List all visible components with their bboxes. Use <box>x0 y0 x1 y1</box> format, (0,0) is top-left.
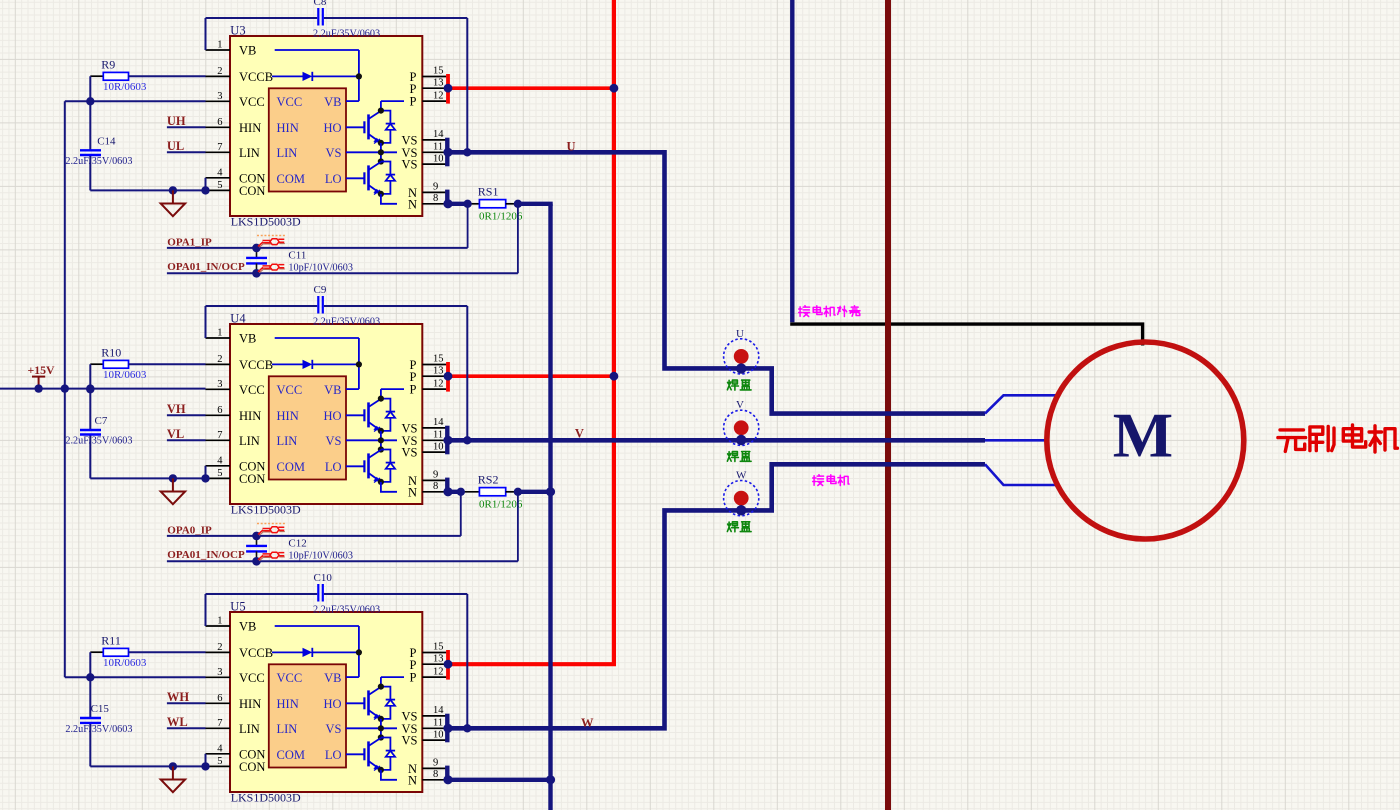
svg-text:8: 8 <box>433 769 438 780</box>
VS bar U4 <box>445 426 449 455</box>
wire OPA_IN tap U3 <box>517 204 519 273</box>
svg-text:N: N <box>408 773 417 787</box>
diode D-low U4 <box>378 450 395 486</box>
svg-text:N: N <box>408 197 417 211</box>
transistor Q-low U5 (IGBT) <box>346 738 381 771</box>
svg-text:7: 7 <box>217 142 222 153</box>
svg-text:U4: U4 <box>230 312 246 326</box>
internal VS rail U3 <box>346 143 397 165</box>
svg-text:HIN: HIN <box>239 409 261 423</box>
svg-text:7: 7 <box>217 430 222 441</box>
no-ERC marker OPA0_IP <box>257 524 286 536</box>
node OPA tap U4 <box>457 488 465 496</box>
label 焊盘 U <box>727 380 751 390</box>
N bar U5 <box>445 766 449 783</box>
inner block U4 <box>269 376 346 479</box>
svg-text:VB: VB <box>324 671 341 685</box>
N bar U3 <box>445 190 449 207</box>
wire phase W (thick) <box>448 464 985 728</box>
svg-text:2: 2 <box>217 354 222 365</box>
node gnd U3 <box>169 186 177 194</box>
svg-text:WL: WL <box>167 715 188 729</box>
svg-text:1: 1 <box>217 616 222 627</box>
svg-text:VCC: VCC <box>239 383 265 397</box>
wire VB rail U5 <box>206 594 468 728</box>
svg-text:VCCB: VCCB <box>239 70 273 84</box>
svg-text:HIN: HIN <box>277 409 299 423</box>
svg-text:CON: CON <box>239 760 265 774</box>
svg-text:VB: VB <box>324 95 341 109</box>
svg-text:LIN: LIN <box>239 434 260 448</box>
VS bar U3 <box>445 138 449 167</box>
svg-text:VB: VB <box>239 620 256 634</box>
svg-text:P: P <box>410 383 417 397</box>
capacitor C12 <box>246 536 267 561</box>
pin numbers right U4 <box>433 354 444 492</box>
svg-text:10: 10 <box>433 729 444 740</box>
svg-text:+15V: +15V <box>28 363 56 377</box>
svg-text:R9: R9 <box>101 58 115 72</box>
svg-text:U3: U3 <box>230 24 245 38</box>
svg-text:3: 3 <box>217 667 222 678</box>
svg-text:14: 14 <box>433 705 444 716</box>
capacitor C7 <box>80 430 101 435</box>
svg-text:LO: LO <box>325 460 342 474</box>
svg-text:5: 5 <box>217 756 222 767</box>
wire VB rail U3 <box>206 18 468 152</box>
transistor Q-low U4 (IGBT) <box>346 450 381 483</box>
svg-text:14: 14 <box>433 129 444 140</box>
node P U3 <box>444 84 453 93</box>
P-bus bar U4 <box>446 362 450 392</box>
wire VCC U5 <box>65 676 206 678</box>
pad W (焊盘) <box>724 481 759 516</box>
svg-text:7: 7 <box>217 718 222 729</box>
node N U5 <box>443 775 452 784</box>
svg-text:CON: CON <box>239 472 265 486</box>
svg-text:LIN: LIN <box>239 722 260 736</box>
wire +15V vertical rail <box>64 101 66 677</box>
svg-text:OPA01_IN/OCP: OPA01_IN/OCP <box>167 549 245 561</box>
pin names left U3 <box>239 44 273 198</box>
svg-text:HO: HO <box>323 121 341 135</box>
wire N to shunt U4 <box>448 490 479 494</box>
svg-text:OPA01_IN/OCP: OPA01_IN/OCP <box>167 261 245 273</box>
node P U4 <box>444 372 453 381</box>
label 焊盘 W <box>727 522 751 532</box>
no-ERC marker OPA01_IN/OCP <box>258 552 285 561</box>
svg-text:4: 4 <box>217 744 223 755</box>
svg-text:9: 9 <box>433 758 438 769</box>
pin names right U5 <box>402 646 418 787</box>
svg-text:0R1/1206: 0R1/1206 <box>479 210 523 222</box>
node shunt out U3 <box>514 200 522 208</box>
bus DC- maroon vertical <box>885 0 891 810</box>
svg-text:0R1/1206: 0R1/1206 <box>479 498 523 510</box>
svg-text:10R/0603: 10R/0603 <box>103 81 147 93</box>
svg-text:VCCB: VCCB <box>239 358 273 372</box>
pin names left U4 <box>239 332 273 486</box>
wire OPA0_IP <box>167 535 461 537</box>
svg-text:4: 4 <box>217 168 223 179</box>
node VCC U4 <box>86 385 94 393</box>
IC U5 (LKS1D5003D gate driver) <box>230 612 422 792</box>
svg-text:WH: WH <box>167 690 190 704</box>
diode D-high U4 <box>378 389 404 434</box>
resistor RS2 (shunt) <box>479 488 518 496</box>
inner block U5 <box>269 664 346 767</box>
node +15V rail <box>61 384 69 392</box>
label 焊盘 V <box>727 452 751 462</box>
svg-text:U: U <box>567 140 576 154</box>
svg-text:10pF/10V/0603: 10pF/10V/0603 <box>288 263 353 274</box>
pin numbers right U3 <box>433 66 444 204</box>
svg-text:15: 15 <box>433 642 444 653</box>
wire OPA_IP tap U3 <box>467 204 469 248</box>
svg-text:2: 2 <box>217 642 222 653</box>
N bar U4 <box>445 478 449 495</box>
pins right U3 (15,13,12,14,11,10,9,8) <box>422 77 446 204</box>
capacitor C8 (bootstrap) <box>318 8 323 26</box>
label 无刷电机 <box>1278 425 1398 452</box>
diode D-high U5 <box>378 677 404 722</box>
wire phase W to motor <box>985 464 1056 485</box>
svg-text:10R/0603: 10R/0603 <box>103 657 147 669</box>
svg-text:LKS1D5003D: LKS1D5003D <box>231 214 301 228</box>
node gnd U5 <box>169 762 177 770</box>
power bus P (red vertical net) <box>446 0 614 664</box>
internal VB/VCCB network U4 <box>272 338 362 389</box>
diode D-high U3 <box>378 101 404 146</box>
wire UL <box>167 151 206 153</box>
svg-text:P: P <box>410 82 417 96</box>
svg-text:15: 15 <box>433 354 444 365</box>
diode D-low U5 <box>378 738 395 774</box>
node N bus U5 <box>546 775 555 784</box>
svg-text:LO: LO <box>325 748 342 762</box>
transistor Q-high U3 (IGBT) <box>346 111 381 144</box>
node OPA01_IN/OCP <box>252 269 261 278</box>
svg-text:LIN: LIN <box>277 146 298 160</box>
capacitor C14 <box>80 150 101 155</box>
internal VB/VCCB network U3 <box>272 50 362 101</box>
svg-text:9: 9 <box>433 470 438 481</box>
node pin5 U4 <box>201 474 209 482</box>
svg-text:VCC: VCC <box>239 95 265 109</box>
svg-text:6: 6 <box>217 405 222 416</box>
svg-text:6: 6 <box>217 693 222 704</box>
svg-text:VS: VS <box>402 158 418 172</box>
svg-text:U: U <box>736 328 744 340</box>
internal VS rail U5 <box>346 719 397 741</box>
node P-U4 <box>610 372 619 381</box>
node P U5 <box>444 660 453 669</box>
svg-text:2.2uF/35V/0603: 2.2uF/35V/0603 <box>65 724 132 735</box>
wire R10 to VCC/gnd <box>89 364 91 478</box>
svg-text:LIN: LIN <box>277 722 298 736</box>
svg-text:HIN: HIN <box>239 697 261 711</box>
svg-text:COM: COM <box>277 172 305 186</box>
svg-text:UH: UH <box>167 114 186 128</box>
svg-text:VS: VS <box>402 734 418 748</box>
wire red P U3 <box>446 86 614 90</box>
svg-text:15: 15 <box>433 66 444 77</box>
svg-text:P: P <box>410 671 417 685</box>
wire OPA01_IN/OCP <box>167 560 518 562</box>
wire gnd row U5 <box>90 754 205 767</box>
pin names right U4 <box>402 358 418 499</box>
P-bus bar U3 <box>446 74 450 104</box>
diode D-low U3 <box>378 162 395 197</box>
pin numbers left U5 <box>217 616 223 767</box>
wire gnd row U3 <box>90 178 205 191</box>
svg-text:12: 12 <box>433 666 444 677</box>
svg-text:HO: HO <box>323 409 341 423</box>
wire VH <box>167 414 206 416</box>
svg-text:VH: VH <box>167 402 186 416</box>
transistor Q-high U5 (IGBT) <box>346 687 381 720</box>
wire OPA01_IN/OCP <box>167 272 518 274</box>
svg-text:VB: VB <box>239 44 256 58</box>
svg-text:C15: C15 <box>91 703 110 715</box>
svg-text:HIN: HIN <box>277 121 299 135</box>
svg-text:5: 5 <box>217 468 222 479</box>
pin numbers left U4 <box>217 328 223 479</box>
wire red P U4 <box>446 374 614 378</box>
node VS U4 <box>443 436 452 445</box>
svg-text:C9: C9 <box>314 284 327 296</box>
svg-text:11: 11 <box>433 430 443 441</box>
svg-text:13: 13 <box>433 653 444 664</box>
svg-text:1: 1 <box>217 328 222 339</box>
svg-text:HIN: HIN <box>277 697 299 711</box>
svg-text:9: 9 <box>433 182 438 193</box>
svg-text:VS: VS <box>326 146 342 160</box>
node pin5 U5 <box>201 762 209 770</box>
node N bus U4 <box>546 487 555 496</box>
svg-text:VCC: VCC <box>239 671 265 685</box>
pins right U5 (15,13,12,14,11,10,9,8) <box>422 653 446 780</box>
svg-text:3: 3 <box>217 379 222 390</box>
internal VS rail U4 <box>346 431 397 453</box>
wire R11 to VCC/gnd <box>89 652 91 766</box>
pins left U3 (1,2,3,6,7,4,5) <box>206 50 231 190</box>
svg-text:2.2uF/35V/0603: 2.2uF/35V/0603 <box>313 317 380 328</box>
svg-text:LO: LO <box>325 172 342 186</box>
transistor Q-low U3 (IGBT) <box>346 162 381 195</box>
wire phase V (thick) <box>448 438 985 443</box>
svg-text:13: 13 <box>433 77 444 88</box>
pins left U4 (1,2,3,6,7,4,5) <box>206 338 231 478</box>
wire OPA_IP tap U4 <box>460 492 462 536</box>
svg-text:2.2uF/35V/0603: 2.2uF/35V/0603 <box>313 29 380 40</box>
svg-text:8: 8 <box>433 193 438 204</box>
node shunt out U4 <box>514 488 522 496</box>
svg-text:C12: C12 <box>288 538 306 550</box>
svg-text:VS: VS <box>402 446 418 460</box>
internal N rail U3 <box>381 194 397 204</box>
svg-text:VCC: VCC <box>277 383 303 397</box>
svg-text:VS: VS <box>326 722 342 736</box>
svg-text:C11: C11 <box>288 250 306 262</box>
node N U4 <box>443 487 452 496</box>
svg-text:M: M <box>1113 400 1173 471</box>
svg-text:C7: C7 <box>95 415 108 427</box>
svg-text:13: 13 <box>433 365 444 376</box>
svg-text:R11: R11 <box>101 634 121 648</box>
wire gnd row U4 <box>90 466 205 479</box>
wire UH <box>167 126 206 128</box>
svg-text:3: 3 <box>217 91 222 102</box>
svg-text:VB: VB <box>239 332 256 346</box>
svg-text:V: V <box>575 426 584 440</box>
svg-text:C8: C8 <box>314 0 327 8</box>
svg-text:OPA1_IP: OPA1_IP <box>167 237 212 249</box>
svg-text:RS1: RS1 <box>478 185 499 199</box>
svg-text:HIN: HIN <box>239 121 261 135</box>
node VS tap U3 <box>463 148 471 156</box>
svg-text:R10: R10 <box>101 346 121 360</box>
svg-text:LIN: LIN <box>277 434 298 448</box>
capacitor C15 <box>80 718 101 723</box>
pad V (焊盘) <box>724 410 759 445</box>
node OPA1_IP <box>252 244 261 253</box>
wire +15V horizontal <box>0 388 206 390</box>
node VS tap U5 <box>463 724 471 732</box>
pad U (焊盘) <box>724 339 759 374</box>
svg-text:VCC: VCC <box>277 671 303 685</box>
svg-text:N: N <box>408 485 417 499</box>
svg-text:RS2: RS2 <box>478 473 499 487</box>
svg-text:5: 5 <box>217 180 222 191</box>
bus N shunt vertical <box>548 204 552 810</box>
wire WL <box>167 727 206 729</box>
svg-text:11: 11 <box>433 718 443 729</box>
node VCC U5 <box>86 673 94 681</box>
svg-text:C10: C10 <box>314 572 333 584</box>
pins right U4 (15,13,12,14,11,10,9,8) <box>422 365 446 492</box>
node OPA tap U3 <box>463 200 471 208</box>
node VS U3 <box>443 148 452 157</box>
capacitor C9 (bootstrap) <box>318 296 323 314</box>
svg-text:V: V <box>736 399 744 411</box>
wire phase V to motor <box>985 439 1047 442</box>
svg-text:VS: VS <box>326 434 342 448</box>
wire VL <box>167 439 206 441</box>
pin names right U3 <box>402 70 418 211</box>
svg-text:OPA0_IP: OPA0_IP <box>167 525 212 537</box>
svg-text:10pF/10V/0603: 10pF/10V/0603 <box>288 551 353 562</box>
wire WH <box>167 702 206 704</box>
motor M1 circle <box>1047 342 1244 539</box>
svg-text:1: 1 <box>217 40 222 51</box>
capacitor C11 <box>246 248 267 273</box>
wire OPA1_IP <box>167 247 468 249</box>
wire phase U (thick) <box>448 152 985 413</box>
node P-U3 <box>610 84 619 93</box>
internal N rail U4 <box>381 482 397 492</box>
label 接电机外壳 <box>799 306 860 317</box>
wire N to bus U5 <box>448 778 553 782</box>
node +15V stem <box>34 384 42 392</box>
svg-text:14: 14 <box>433 417 444 428</box>
resistor R10 <box>90 360 205 368</box>
IC U3 (LKS1D5003D gate driver) <box>230 36 422 216</box>
pin numbers left U3 <box>217 40 223 191</box>
wire OPA_IN tap U4 <box>517 492 519 562</box>
wire motor frame (black) <box>790 324 1142 345</box>
svg-text:UL: UL <box>167 139 184 153</box>
svg-text:VCC: VCC <box>277 95 303 109</box>
ground symbol U5 <box>161 766 185 792</box>
svg-text:2: 2 <box>217 66 222 77</box>
svg-text:11: 11 <box>433 142 443 153</box>
wire shunt to N bus U3 <box>518 202 553 206</box>
IC U4 (LKS1D5003D gate driver) <box>230 324 422 504</box>
svg-text:W: W <box>581 716 594 730</box>
svg-text:COM: COM <box>277 748 305 762</box>
ground symbol U3 <box>161 190 185 216</box>
internal VB/VCCB network U5 <box>272 626 362 677</box>
pins left U5 (1,2,3,6,7,4,5) <box>206 626 231 766</box>
node VS tap U4 <box>463 436 471 444</box>
svg-text:P: P <box>410 370 417 384</box>
svg-text:10R/0603: 10R/0603 <box>103 369 147 381</box>
svg-text:VCCB: VCCB <box>239 646 273 660</box>
svg-text:12: 12 <box>433 378 444 389</box>
bus motor-frame navy vertical <box>790 0 794 322</box>
svg-text:CON: CON <box>239 184 265 198</box>
inner block U3 <box>269 88 346 191</box>
node VCC U3 <box>86 97 94 105</box>
svg-text:P: P <box>410 658 417 672</box>
resistor R11 <box>90 648 205 656</box>
svg-text:LKS1D5003D: LKS1D5003D <box>231 790 301 804</box>
svg-text:10: 10 <box>433 441 444 452</box>
svg-text:VB: VB <box>324 383 341 397</box>
wire R9 to VCC/gnd <box>89 76 91 190</box>
svg-text:U5: U5 <box>230 600 245 614</box>
svg-text:COM: COM <box>277 460 305 474</box>
node OPA01_IN/OCP <box>252 557 261 566</box>
svg-text:2.2uF/35V/0603: 2.2uF/35V/0603 <box>65 436 132 447</box>
wire N to shunt U3 <box>448 202 479 206</box>
no-ERC marker OPA1_IP <box>257 236 286 248</box>
wire phase U to motor <box>985 395 1056 413</box>
svg-text:8: 8 <box>433 481 438 492</box>
svg-text:2.2uF/35V/0603: 2.2uF/35V/0603 <box>65 156 132 167</box>
node N U3 <box>443 199 452 208</box>
VS bar U5 <box>445 714 449 743</box>
internal N rail U5 <box>381 770 397 780</box>
svg-text:C14: C14 <box>97 135 116 147</box>
node pin5 U3 <box>201 186 209 194</box>
no-ERC marker OPA01_IN/OCP <box>258 264 285 273</box>
svg-text:HO: HO <box>323 697 341 711</box>
resistor RS1 (shunt) <box>479 200 518 208</box>
node gnd U4 <box>169 474 177 482</box>
svg-text:W: W <box>736 470 747 482</box>
node VS U5 <box>443 724 452 733</box>
svg-text:LKS1D5003D: LKS1D5003D <box>231 502 301 516</box>
wire VCC U3 <box>65 100 206 102</box>
svg-text:12: 12 <box>433 90 444 101</box>
resistor R9 <box>90 72 205 80</box>
node OPA0_IP <box>252 532 261 541</box>
pin names left U5 <box>239 620 273 774</box>
svg-text:LIN: LIN <box>239 146 260 160</box>
svg-text:6: 6 <box>217 117 222 128</box>
